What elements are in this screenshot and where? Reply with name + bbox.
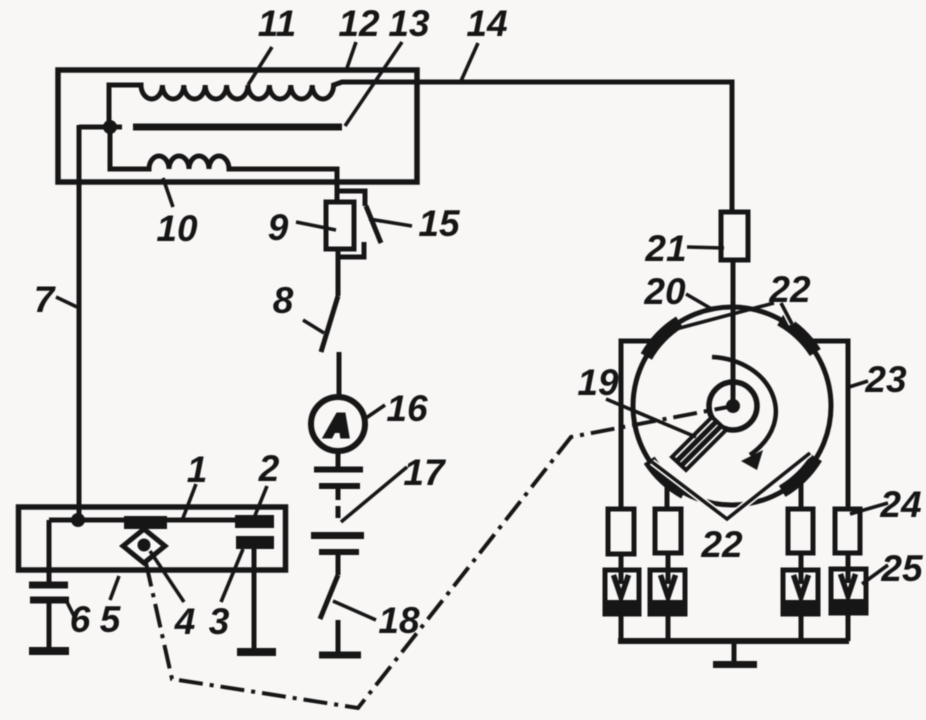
electrode 22 bottom-left [649,460,684,493]
wire resistor to plug col3 [799,553,804,570]
wire resistor to plug col2 [666,553,671,570]
junction dot at coil [103,120,117,134]
pointer 22 bottom V [652,453,810,519]
iron core 13 [133,124,342,131]
svg-text:11: 11 [258,3,296,44]
suppressor resistor 24 col4 [835,509,860,553]
pointer lines [56,42,888,620]
pointer 19 [606,399,696,437]
svg-text:23: 23 [864,359,907,400]
electrode 22 top-left [646,322,679,357]
wire plug to bus col4 [846,613,851,641]
pointer 22 top long [676,303,774,329]
svg-text:7: 7 [34,279,57,320]
svg-text:9: 9 [268,207,289,248]
pointer 15 [369,219,412,226]
spark plug 25 col2 [650,570,685,614]
rotor center dot [726,399,740,413]
suppressor resistor 21 [721,212,748,260]
capacitor 6 plates [29,582,68,589]
mechanical drive dash-dot link [146,407,728,708]
wire plug to bus col2 [666,614,671,641]
svg-text:17: 17 [403,452,447,493]
pointer 7 [56,297,77,307]
svg-text:21: 21 [644,228,686,269]
wire ammeter to battery 17 [336,451,341,467]
svg-text:15: 15 [418,203,461,244]
wire 23 frame left [621,341,657,510]
switch 8 (ignition switch blade) [321,296,338,352]
wire 23 frame right [807,341,848,509]
svg-text:13: 13 [388,3,430,44]
secondary winding 11 [109,82,417,127]
pointer 3 [221,549,243,602]
svg-text:6: 6 [70,599,91,640]
wire resistor to plug col1 [619,554,624,570]
ignition coil case 12 (outer box) [58,70,417,182]
pointer 8 [303,320,324,333]
pointer 21 [687,247,724,248]
wire from junction to core area [79,125,122,130]
pointer 2 [254,486,267,518]
svg-text:5: 5 [100,599,122,640]
svg-text:1: 1 [187,449,208,490]
rotation arrow [712,357,776,455]
pointer 16 [366,405,385,418]
wire switch 8 to ammeter [337,352,342,398]
wire capacitor 6 to ground [47,603,52,647]
svg-text:8: 8 [273,280,294,321]
pointer 13 [345,42,402,126]
svg-text:22: 22 [768,269,811,310]
rotor hub (inner circle) [709,382,757,430]
wire plug to bus col1 [619,614,624,641]
pointer 22 top short [781,303,792,324]
ammeter 16 [311,397,365,451]
svg-text:3: 3 [209,601,230,642]
resistor 9 (variable resistor box) [326,202,354,249]
ground under switch 18 [319,652,361,659]
ground bus [618,638,849,644]
pointer 23 [849,381,868,387]
spark plug 25 col3 [783,570,818,614]
primary winding 10 [110,130,337,202]
wire 21 to distributor center [731,260,736,406]
pointer 4 [150,551,184,602]
svg-text:22: 22 [700,524,743,565]
ground symbol right [713,661,757,668]
ground under generator right [237,648,276,656]
suppressor resistor 24 col3 [788,509,813,553]
wire electrode BR down [799,475,804,510]
svg-text:20: 20 [643,271,686,312]
electrode 22 top-right [780,320,815,353]
ground stem [732,641,737,662]
junction dot wire 7 / generator [71,513,85,527]
svg-text:2: 2 [258,448,280,489]
pointer 25 [862,565,888,584]
pointer 18 [333,601,376,620]
cam center dot [138,539,151,552]
pointer 10 [163,178,173,207]
svg-text:25: 25 [880,548,924,589]
spark plug 25 col4 [831,569,866,613]
collector contact 2 (upper right bar) [235,515,274,528]
generator box 5 [19,507,286,570]
svg-text:18: 18 [378,600,420,641]
suppressor resistor 24 col2 [655,509,681,553]
wire 14 (high voltage lead) [417,82,732,214]
ground under capacitor 6 [29,647,69,655]
wire 7 (left vertical) [77,125,82,518]
svg-text:A: A [326,408,349,443]
spark plug 25 col1 [605,570,639,614]
battery 17 lower cell [311,532,364,539]
pointer 22 top short [781,303,792,324]
battery 17 upper cell [314,467,363,473]
wire plug to bus col3 [799,614,804,641]
svg-text:14: 14 [466,3,507,44]
svg-text:12: 12 [338,3,380,44]
pointer 5 [110,576,119,600]
cam 4 (diamond) [123,529,165,563]
svg-text:24: 24 [879,484,921,525]
brush contact bar (upper left) [124,516,167,529]
rotor arm 19 (hatched) [672,417,726,470]
distributor cap 20 (big circle) [633,307,831,505]
pointer 12 [347,42,356,68]
electrode 22 bottom-right [782,458,816,492]
bypass switch 15 [338,191,381,257]
pointer 20 [686,294,710,308]
brush 3 (lower right bar) [236,536,274,549]
wire brush 3 to ground [252,549,257,648]
pointer 6 [66,600,75,618]
wire electrode BL down [665,478,670,510]
svg-text:10: 10 [156,208,198,249]
wire resistor 9 to switch 8 [336,249,341,296]
pointer 24 [850,503,888,514]
suppressor resistor 24 col1 [608,509,634,554]
switch 18 blade [320,575,338,619]
svg-text:16: 16 [386,388,428,429]
pointer 14 [461,43,478,81]
generator armature conductor 1 [49,518,274,523]
svg-text:4: 4 [174,601,196,642]
wire battery to switch 18 [336,555,341,575]
pointer 17 [341,467,407,522]
pointer 1 [183,484,196,518]
wire resistor to plug col4 [846,553,851,569]
pointer 9 [296,222,336,230]
pointer 11 [248,47,272,85]
wire switch 18 to ground [336,620,341,652]
wire between cells [336,489,341,518]
svg-text:19: 19 [577,362,619,403]
generator left inner lead [47,520,52,582]
